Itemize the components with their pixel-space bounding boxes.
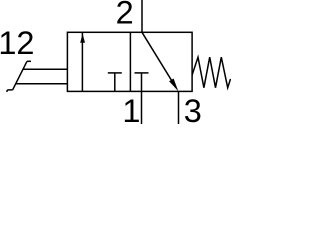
svg-text:3: 3 bbox=[184, 93, 202, 124]
svg-text:12: 12 bbox=[0, 25, 34, 61]
svg-text:1: 1 bbox=[122, 93, 140, 124]
svg-text:2: 2 bbox=[116, 0, 134, 30]
